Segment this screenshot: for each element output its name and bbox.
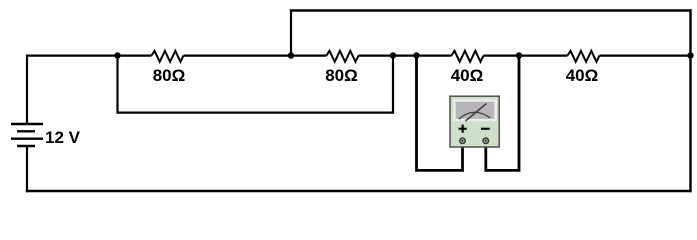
- meter M1 body: [450, 96, 499, 147]
- resistor R1 80Ω: [152, 51, 184, 62]
- meter M1 minus sign: [481, 128, 490, 130]
- wire meter left branch: [417, 56, 463, 171]
- wire left vertical below battery: [26, 146, 28, 192]
- svg-text:80Ω: 80Ω: [325, 66, 358, 85]
- battery V1 12V (multicell): [11, 124, 43, 146]
- wire top-left vertical drop: [290, 10, 292, 56]
- junction node at R1 left / bypass loop: [114, 52, 120, 58]
- svg-text:40Ω: 40Ω: [451, 66, 484, 85]
- wire left vertical above battery: [26, 55, 28, 125]
- wire right of R4: [600, 54, 692, 56]
- wire bottom horizontal: [26, 190, 692, 193]
- junction node at bypass loop right: [390, 52, 396, 58]
- wire between R1 and R2: [184, 54, 327, 56]
- wire between R3 and R4: [484, 54, 568, 56]
- junction node meter left branch: [413, 52, 419, 58]
- wire main left segment: [26, 54, 152, 56]
- resistor R2 80Ω: [327, 51, 359, 62]
- resistor R4 40Ω: [568, 51, 600, 62]
- meter M1 plus sign: [459, 125, 467, 133]
- meter M1 right terminal: [483, 138, 489, 144]
- junction node between R1 and R2 / top wire: [288, 52, 294, 58]
- resistor R3 40Ω: [452, 51, 484, 62]
- wire meter right branch: [486, 56, 519, 171]
- svg-text:80Ω: 80Ω: [153, 66, 186, 85]
- meter M1 display window: [455, 101, 496, 121]
- meter M1 left terminal: [460, 138, 466, 144]
- svg-text:40Ω: 40Ω: [566, 66, 599, 85]
- meter M1 scale arc: [459, 112, 490, 119]
- junction node main wire / right edge: [687, 52, 693, 58]
- wire between R2 and R3: [359, 54, 452, 56]
- meter M1 needle: [466, 104, 487, 122]
- wire bypass loop: [118, 56, 394, 113]
- wire top horizontal: [290, 9, 692, 11]
- wire right edge vertical: [689, 9, 691, 192]
- junction node meter right branch: [516, 52, 522, 58]
- svg-text:12 V: 12 V: [45, 128, 81, 147]
